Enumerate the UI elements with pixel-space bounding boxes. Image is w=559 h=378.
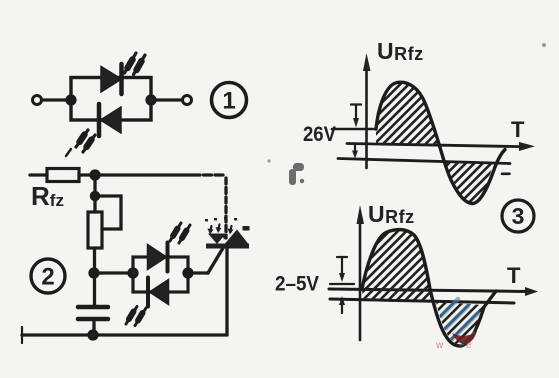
svg-text:w: w xyxy=(435,340,444,351)
svg-text:e: e xyxy=(466,340,472,351)
svg-text:2–5V: 2–5V xyxy=(275,273,319,296)
svg-text:2: 2 xyxy=(41,264,54,291)
svg-text:3: 3 xyxy=(512,203,525,229)
svg-text:1: 1 xyxy=(222,88,235,115)
svg-text:T: T xyxy=(511,117,525,142)
svg-text:T: T xyxy=(507,263,521,288)
svg-text:26V: 26V xyxy=(303,123,336,146)
